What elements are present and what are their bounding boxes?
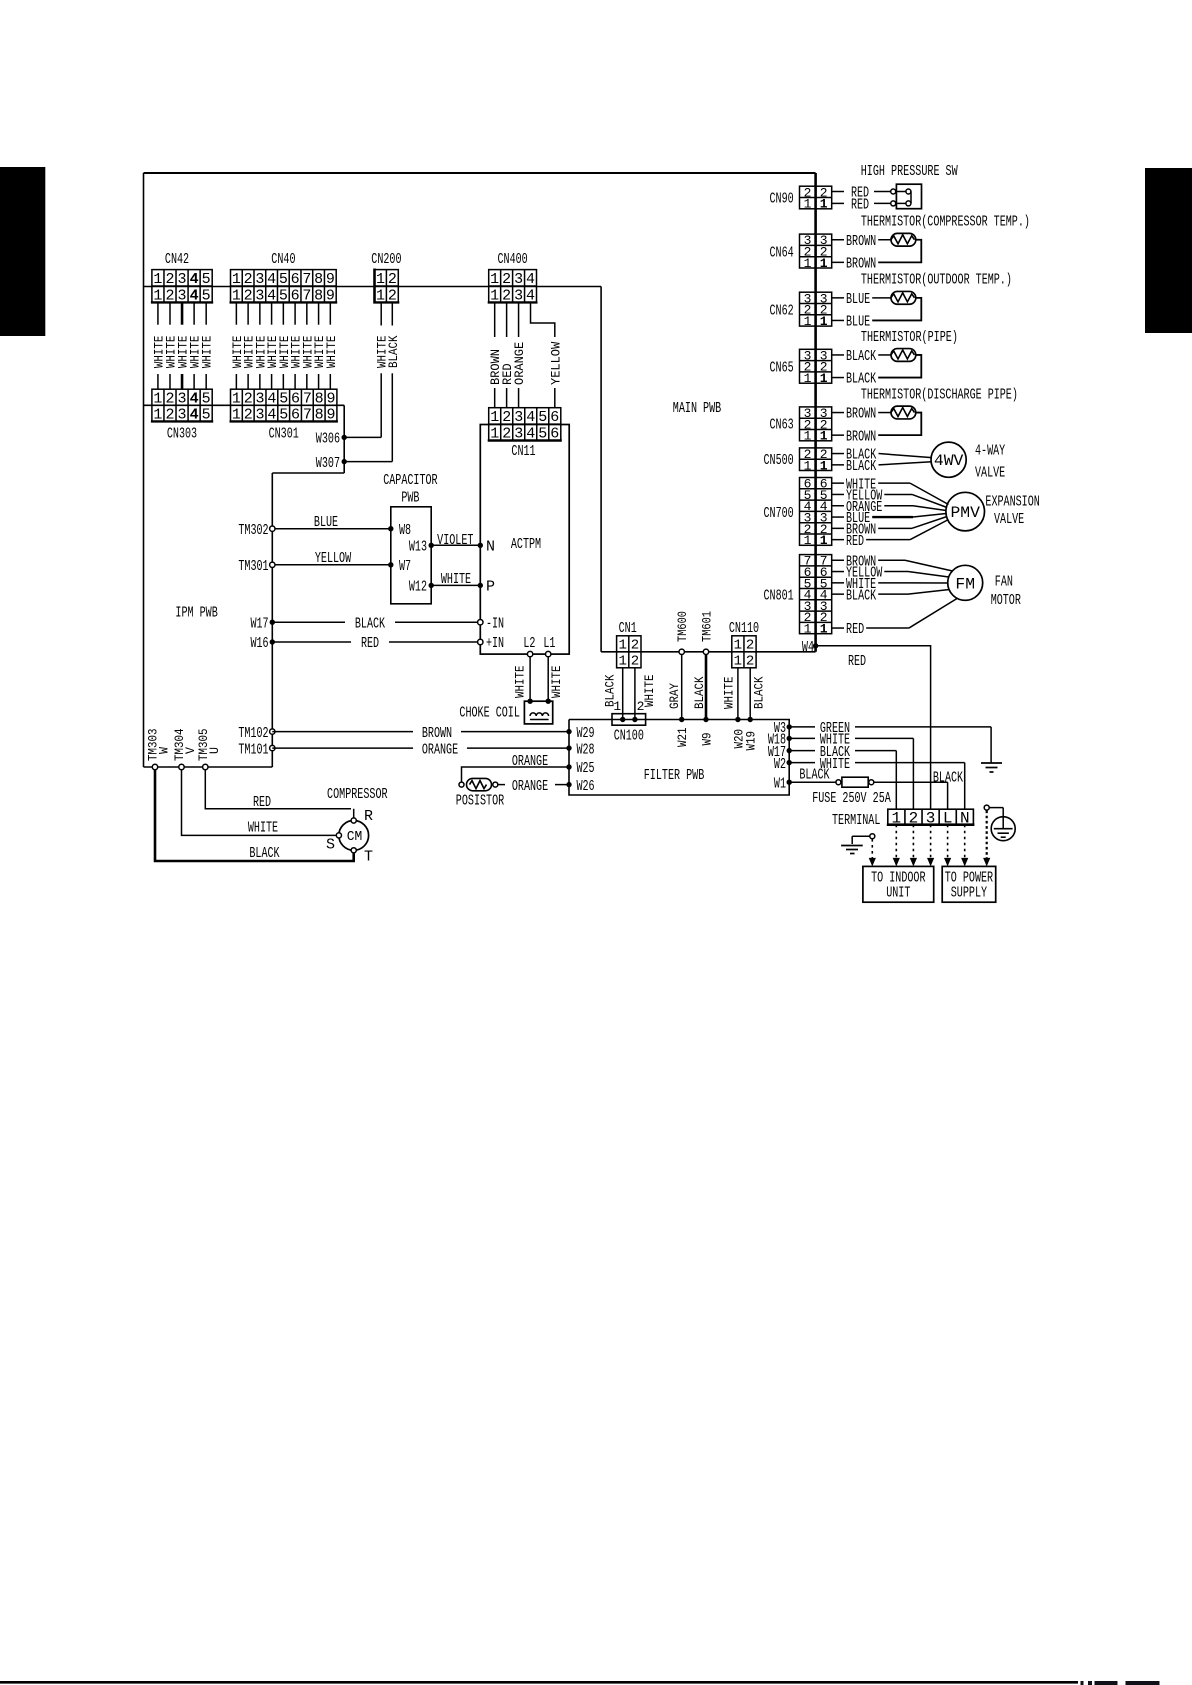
- wire CN801 pin1 RED to FM: [832, 599, 957, 639]
- svg-text:1: 1: [734, 638, 742, 654]
- wire CN40 pin3 to CN301 (WHITE): [253, 302, 268, 389]
- wire TM305 RED to compressor R: [205, 770, 353, 818]
- connector CN700: [800, 477, 832, 548]
- svg-text:5: 5: [538, 409, 547, 426]
- svg-text:WHITE: WHITE: [722, 676, 737, 709]
- dashed arrow 2 to unit box: [893, 825, 900, 867]
- wire CN40 pin2 to CN301 (WHITE): [242, 302, 257, 389]
- wire CN700 pin5 YELLOW to PMV: [832, 488, 947, 508]
- node W25: [566, 760, 594, 777]
- svg-text:GRAY: GRAY: [667, 683, 682, 709]
- connector CN700 label: [764, 505, 794, 522]
- svg-text:1: 1: [820, 622, 828, 637]
- svg-text:1: 1: [376, 271, 385, 288]
- wire CN40 pin5 to CN301 (WHITE): [277, 302, 292, 389]
- wire L1 WHITE to choke: [548, 657, 564, 701]
- svg-text:CHOKE COIL: CHOKE COIL: [459, 705, 520, 722]
- node TM304: [172, 728, 198, 769]
- svg-text:BLACK: BLACK: [386, 335, 401, 368]
- svg-text:3: 3: [178, 287, 187, 304]
- wire IPM bottom edge: [144, 766, 273, 768]
- connector CN500 label: [764, 452, 794, 469]
- module ACTPM box: [480, 425, 569, 655]
- svg-text:-IN: -IN: [486, 615, 504, 632]
- node W1: [774, 775, 792, 792]
- wire CN200 pin1 (WHITE) to W306: [344, 302, 390, 437]
- svg-text:6: 6: [291, 407, 300, 424]
- svg-text:1: 1: [153, 407, 162, 424]
- node W8: [388, 522, 411, 539]
- wire W306/W307 stem: [343, 405, 345, 473]
- svg-text:THERMISTOR(DISCHARGE PIPE): THERMISTOR(DISCHARGE PIPE): [861, 386, 1018, 403]
- module FILTER PWB label: [644, 767, 705, 784]
- svg-text:1: 1: [804, 371, 812, 386]
- connector CN64: [800, 233, 832, 271]
- svg-text:FAN: FAN: [995, 573, 1013, 590]
- left page margin black bar: [0, 167, 45, 336]
- svg-text:W: W: [157, 747, 172, 754]
- svg-text:FM: FM: [955, 575, 975, 593]
- wire TM303 BLACK to compressor T: [155, 770, 354, 862]
- module ACTPM label: [511, 536, 541, 553]
- connector CN301: [230, 389, 338, 423]
- wire CN801 pin7 BROWN to FM: [832, 553, 953, 571]
- node W13: [409, 539, 434, 556]
- wire CN801 pin5 WHITE to FM: [832, 576, 948, 593]
- connector CN200: [374, 269, 400, 305]
- box TO POWER SUPPLY: [942, 866, 996, 902]
- svg-text:TM303: TM303: [146, 729, 161, 762]
- svg-text:2: 2: [502, 409, 511, 426]
- svg-text:ACTPM: ACTPM: [511, 536, 541, 553]
- svg-text:7: 7: [303, 407, 312, 424]
- wire CN700 pin3 BLUE to PMV: [832, 510, 947, 527]
- wire CN700 pin4 ORANGE to PMV: [832, 499, 947, 516]
- svg-text:W19: W19: [744, 731, 759, 751]
- connector CN1: [617, 636, 641, 670]
- svg-text:CN63: CN63: [770, 417, 794, 434]
- node W307: [316, 455, 347, 472]
- svg-text:4: 4: [526, 426, 535, 443]
- svg-text:CN64: CN64: [770, 244, 794, 261]
- wire W2 WHITE to terminal N: [789, 756, 965, 809]
- node W9: [700, 717, 715, 746]
- connector CN42: [151, 270, 213, 305]
- node W19: [744, 717, 759, 751]
- wire W25 ORANGE to posistor: [462, 753, 570, 781]
- svg-text:1: 1: [232, 407, 241, 424]
- svg-text:W25: W25: [577, 760, 595, 777]
- connector CN11: [488, 408, 562, 443]
- svg-text:1: 1: [490, 287, 499, 304]
- svg-text:2: 2: [244, 407, 253, 424]
- connector CN200 label: [371, 251, 401, 268]
- wire CN42 pin3 to CN303 (WHITE): [176, 302, 191, 389]
- wire TM601 BLACK to W9: [692, 655, 707, 720]
- svg-text:CN11: CN11: [511, 443, 535, 460]
- wire CN700 pin2 BROWN to PMV: [832, 517, 947, 539]
- svg-text:W12: W12: [409, 579, 427, 596]
- node W18: [768, 732, 792, 749]
- wire TM304 WHITE to compressor S: [182, 770, 337, 837]
- svg-text:2: 2: [388, 271, 397, 288]
- connector CN1 label: [619, 620, 637, 637]
- wire W1 BLACK to fuse: [789, 767, 836, 784]
- svg-text:IPM PWB: IPM PWB: [175, 605, 217, 622]
- connector CN303: [151, 389, 213, 423]
- svg-text:YELLOW: YELLOW: [315, 550, 351, 567]
- svg-text:3: 3: [514, 287, 523, 304]
- svg-text:9: 9: [326, 271, 335, 288]
- wire CN400 pin2 (RED) to CN11 pin2: [500, 302, 515, 407]
- svg-text:CN301: CN301: [269, 426, 299, 443]
- svg-text:BLACK: BLACK: [751, 676, 766, 709]
- svg-text:2: 2: [502, 287, 511, 304]
- dashed arrow 6 to unit box: [961, 825, 968, 867]
- connector CN63 label: [770, 417, 794, 434]
- svg-text:ORANGE: ORANGE: [512, 342, 527, 385]
- svg-text:W13: W13: [409, 539, 427, 556]
- svg-text:TM101: TM101: [238, 741, 268, 758]
- node L2: [523, 635, 535, 657]
- footer text fragment 3: [1095, 1681, 1118, 1685]
- svg-text:TM305: TM305: [196, 729, 211, 762]
- svg-text:W8: W8: [399, 522, 411, 539]
- wire TM301 YELLOW to W7: [272, 550, 391, 567]
- dashed arrow 4 to unit box: [927, 825, 934, 867]
- wire CN42 pin2 to CN303 (WHITE): [164, 302, 179, 389]
- svg-text:UNIT: UNIT: [886, 885, 910, 902]
- svg-text:2: 2: [631, 638, 639, 654]
- svg-text:ORANGE: ORANGE: [512, 778, 548, 795]
- svg-text:5: 5: [202, 287, 211, 304]
- svg-text:1: 1: [820, 314, 828, 329]
- component thermistor pipe: [832, 329, 958, 388]
- connector CN11 label: [511, 443, 535, 460]
- wire W3 GREEN to earth: [789, 720, 991, 763]
- node TM102: [238, 725, 275, 742]
- svg-text:VALVE: VALVE: [994, 511, 1024, 528]
- wire fuse to terminal L: [874, 770, 963, 810]
- svg-text:1: 1: [618, 654, 626, 670]
- wire stem elbow: [272, 472, 344, 474]
- svg-text:W29: W29: [577, 725, 595, 742]
- svg-text:5: 5: [538, 426, 547, 443]
- svg-text:4: 4: [267, 271, 276, 288]
- svg-text:1: 1: [820, 458, 828, 473]
- svg-text:1: 1: [153, 390, 162, 407]
- footer text fragment 4: [1126, 1681, 1160, 1685]
- svg-text:7: 7: [303, 390, 312, 407]
- svg-text:W28: W28: [577, 741, 595, 758]
- svg-text:6: 6: [291, 271, 300, 288]
- svg-text:1: 1: [490, 409, 499, 426]
- svg-text:9: 9: [326, 407, 335, 424]
- footer text fragment 2: [1088, 1681, 1092, 1685]
- connector CN500: [800, 447, 832, 473]
- svg-text:CN303: CN303: [167, 426, 197, 443]
- svg-text:6: 6: [550, 426, 559, 443]
- component 4-way valve 4WV: [931, 442, 1005, 482]
- wire lower bus to filter: [601, 651, 816, 653]
- wire TM102 BROWN to W29: [272, 725, 569, 742]
- node W306: [316, 431, 347, 448]
- connector CN65: [800, 348, 832, 386]
- svg-text:4: 4: [190, 390, 199, 407]
- svg-text:BLACK: BLACK: [249, 845, 279, 862]
- node TM301: [238, 558, 275, 575]
- svg-text:4: 4: [190, 407, 199, 424]
- component compressor CM: [326, 786, 388, 866]
- svg-text:5: 5: [202, 407, 211, 424]
- svg-text:WHITE: WHITE: [248, 820, 278, 837]
- wire bus vertical x601: [600, 287, 602, 652]
- svg-text:BLACK: BLACK: [799, 767, 829, 784]
- component thermistor outdoor temp: [832, 272, 1012, 331]
- dashed arrow 3 to unit box: [910, 825, 917, 867]
- svg-text:RED: RED: [851, 197, 869, 214]
- svg-text:W9: W9: [700, 733, 715, 746]
- svg-text:2: 2: [746, 654, 754, 670]
- wire CN400 pin1 (BROWN) to CN11 pin1: [488, 302, 503, 407]
- wire CN110 pin2 BLACK to W19: [750, 668, 766, 720]
- wire TM101 ORANGE to W28: [272, 741, 569, 758]
- wire CN40 pin6 to CN301 (WHITE): [289, 302, 304, 389]
- svg-text:RED: RED: [361, 635, 379, 652]
- module CAPACITOR PWB box: [391, 507, 431, 604]
- svg-text:BLUE: BLUE: [314, 514, 338, 531]
- connector CN801 label: [764, 587, 794, 604]
- svg-text:RED: RED: [846, 533, 864, 550]
- component high pressure switch: [832, 163, 958, 213]
- svg-text:2: 2: [244, 390, 253, 407]
- svg-text:MAIN PWB: MAIN PWB: [673, 400, 721, 417]
- svg-text:5: 5: [202, 271, 211, 288]
- connector CN40 label: [271, 251, 295, 268]
- module FILTER PWB box: [569, 720, 789, 796]
- wire CN500 pin2 BLACK: [832, 447, 932, 464]
- svg-text:1: 1: [804, 458, 812, 473]
- svg-text:S: S: [326, 837, 335, 854]
- wire W13 VIOLET to N: [431, 532, 480, 549]
- svg-text:TM304: TM304: [172, 728, 187, 761]
- svg-text:2: 2: [637, 699, 645, 714]
- svg-text:RED: RED: [846, 621, 864, 638]
- svg-text:CM: CM: [347, 830, 363, 845]
- svg-text:POSISTOR: POSISTOR: [456, 793, 504, 810]
- svg-text:THERMISTOR(PIPE): THERMISTOR(PIPE): [861, 329, 958, 346]
- svg-text:WHITE: WHITE: [642, 674, 657, 707]
- svg-text:1: 1: [820, 371, 828, 386]
- svg-text:4: 4: [526, 287, 535, 304]
- wire W26 ORANGE to posistor: [498, 778, 569, 795]
- wire CN801 pin6 YELLOW to FM: [832, 565, 949, 582]
- svg-text:COMPRESSOR: COMPRESSOR: [327, 786, 388, 803]
- wire W17 BLACK to terminal 1: [789, 744, 896, 809]
- svg-text:BLACK: BLACK: [846, 458, 876, 475]
- svg-text:FUSE 250V 25A: FUSE 250V 25A: [812, 790, 891, 807]
- svg-text:1: 1: [804, 622, 812, 637]
- svg-text:1: 1: [232, 287, 241, 304]
- svg-text:2: 2: [165, 390, 174, 407]
- svg-text:WHITE: WHITE: [513, 665, 528, 698]
- svg-text:2: 2: [165, 407, 174, 424]
- node TM601: [700, 611, 715, 655]
- wire W16 RED to +IN: [272, 635, 477, 652]
- svg-text:2: 2: [388, 287, 397, 304]
- right page margin black bar: [1145, 168, 1192, 333]
- connector CN64 label: [770, 244, 794, 261]
- node TM101: [238, 741, 275, 758]
- svg-text:5: 5: [202, 390, 211, 407]
- svg-text:1: 1: [153, 287, 162, 304]
- svg-text:THERMISTOR(COMPRESSOR TEMP.): THERMISTOR(COMPRESSOR TEMP.): [861, 214, 1030, 231]
- svg-text:2: 2: [502, 271, 511, 288]
- svg-text:BLACK: BLACK: [846, 587, 876, 604]
- svg-text:W26: W26: [577, 778, 595, 795]
- svg-text:4: 4: [526, 409, 535, 426]
- wire CN700 pin1 RED to PMV: [832, 520, 949, 550]
- svg-text:WHITE: WHITE: [549, 665, 564, 698]
- svg-text:4: 4: [526, 271, 535, 288]
- svg-text:3: 3: [514, 426, 523, 443]
- wire IPM right edge: [271, 473, 273, 767]
- svg-text:CN110: CN110: [729, 620, 759, 637]
- connector CN62: [800, 291, 832, 329]
- wire W17 BLACK to -IN: [272, 615, 477, 632]
- footer text fragment 1: [1081, 1681, 1084, 1685]
- node W4: [802, 639, 818, 656]
- connector CN400: [488, 270, 538, 305]
- node N: [478, 539, 495, 556]
- connector CN62 label: [770, 302, 794, 319]
- svg-text:WHITE: WHITE: [441, 571, 471, 588]
- wire MAIN PWB vertical bold: [814, 173, 817, 652]
- junction choke top: [527, 699, 551, 704]
- wire CN42 pin5 to CN303 (WHITE): [200, 302, 215, 389]
- svg-text:CN700: CN700: [764, 505, 794, 522]
- svg-text:3: 3: [178, 390, 187, 407]
- svg-text:4-WAY: 4-WAY: [975, 442, 1005, 459]
- component thermistor compressor temp: [832, 214, 1030, 273]
- svg-text:2: 2: [244, 271, 253, 288]
- svg-text:3: 3: [256, 390, 265, 407]
- svg-text:W307: W307: [316, 455, 340, 472]
- svg-text:BLUE: BLUE: [846, 291, 870, 308]
- svg-text:+IN: +IN: [486, 635, 504, 652]
- node W12: [409, 579, 434, 596]
- svg-text:CN400: CN400: [498, 251, 528, 268]
- dashed arrow 1 to unit box: [869, 839, 876, 866]
- svg-text:2: 2: [165, 287, 174, 304]
- component choke coil: [459, 701, 552, 724]
- svg-text:CN1: CN1: [619, 620, 637, 637]
- svg-text:TM302: TM302: [238, 522, 268, 539]
- svg-text:W21: W21: [675, 727, 690, 747]
- svg-text:1: 1: [153, 271, 162, 288]
- wire CN40 pin4 to CN301 (WHITE): [265, 302, 280, 389]
- wire CN200 pin2 (BLACK) to W307: [344, 302, 401, 461]
- svg-text:N: N: [486, 539, 495, 556]
- svg-text:L2: L2: [523, 635, 535, 652]
- svg-text:3: 3: [178, 407, 187, 424]
- svg-text:1: 1: [232, 390, 241, 407]
- wire CN40 pin1 to CN301 (WHITE): [230, 302, 245, 389]
- svg-text:1: 1: [820, 429, 828, 444]
- node TM600: [675, 611, 690, 655]
- svg-text:PMV: PMV: [951, 504, 981, 522]
- wire CN700 pin6 WHITE to PMV: [832, 476, 949, 504]
- svg-text:4: 4: [190, 271, 199, 288]
- wire CN400 pin3 (ORANGE) to CN11 pin3: [512, 302, 527, 407]
- svg-text:5: 5: [279, 271, 288, 288]
- svg-text:4: 4: [267, 287, 276, 304]
- connector CN400 label: [498, 251, 528, 268]
- svg-text:7: 7: [302, 287, 311, 304]
- node W20: [731, 717, 746, 749]
- svg-text:2: 2: [631, 654, 639, 670]
- svg-text:1: 1: [820, 197, 828, 212]
- svg-text:8: 8: [315, 390, 324, 407]
- svg-text:TM102: TM102: [238, 725, 268, 742]
- svg-text:6: 6: [550, 409, 559, 426]
- connector CN100: [612, 699, 646, 744]
- svg-text:CN42: CN42: [165, 251, 189, 268]
- connector CN40: [230, 270, 338, 305]
- svg-text:4WV: 4WV: [934, 452, 964, 470]
- svg-text:PWB: PWB: [401, 490, 419, 507]
- footer rule line: [0, 1681, 1078, 1684]
- svg-text:BROWN: BROWN: [422, 725, 452, 742]
- svg-text:2: 2: [244, 287, 253, 304]
- svg-text:1: 1: [232, 271, 241, 288]
- node +IN: [478, 635, 505, 652]
- svg-text:BROWN: BROWN: [846, 428, 876, 445]
- svg-text:RED: RED: [253, 794, 271, 811]
- connector CN301 label: [269, 426, 299, 443]
- wire CN40 pin7 to CN301 (WHITE): [300, 302, 315, 389]
- wire W12 WHITE to P: [431, 571, 480, 588]
- connector CN110 label: [729, 620, 759, 637]
- svg-text:BLACK: BLACK: [692, 676, 707, 709]
- svg-text:CN200: CN200: [371, 251, 401, 268]
- wire top frame: [144, 172, 816, 174]
- component posistor: [456, 778, 504, 809]
- svg-text:CN40: CN40: [271, 251, 295, 268]
- connector CN63: [800, 406, 832, 444]
- svg-text:L1: L1: [543, 635, 555, 652]
- component thermistor discharge pipe: [832, 386, 1018, 445]
- module CAPACITOR PWB label: [383, 472, 437, 507]
- wire W18 WHITE to terminal 2: [789, 732, 913, 810]
- svg-text:CN90: CN90: [770, 191, 794, 208]
- svg-text:W17: W17: [251, 615, 269, 632]
- svg-text:EXPANSION: EXPANSION: [985, 494, 1039, 511]
- wire TM600 GRAY to W21: [667, 655, 682, 720]
- svg-text:SUPPLY: SUPPLY: [951, 885, 987, 902]
- svg-text:6: 6: [291, 287, 300, 304]
- svg-text:1: 1: [490, 426, 499, 443]
- connector CN90: [800, 185, 832, 211]
- svg-text:6: 6: [291, 390, 300, 407]
- svg-text:RED: RED: [848, 653, 866, 670]
- svg-text:9: 9: [326, 390, 335, 407]
- node TM305: [196, 729, 222, 770]
- node W29: [566, 725, 594, 742]
- svg-text:W306: W306: [316, 431, 340, 448]
- svg-text:3: 3: [255, 271, 264, 288]
- svg-text:U: U: [207, 747, 222, 754]
